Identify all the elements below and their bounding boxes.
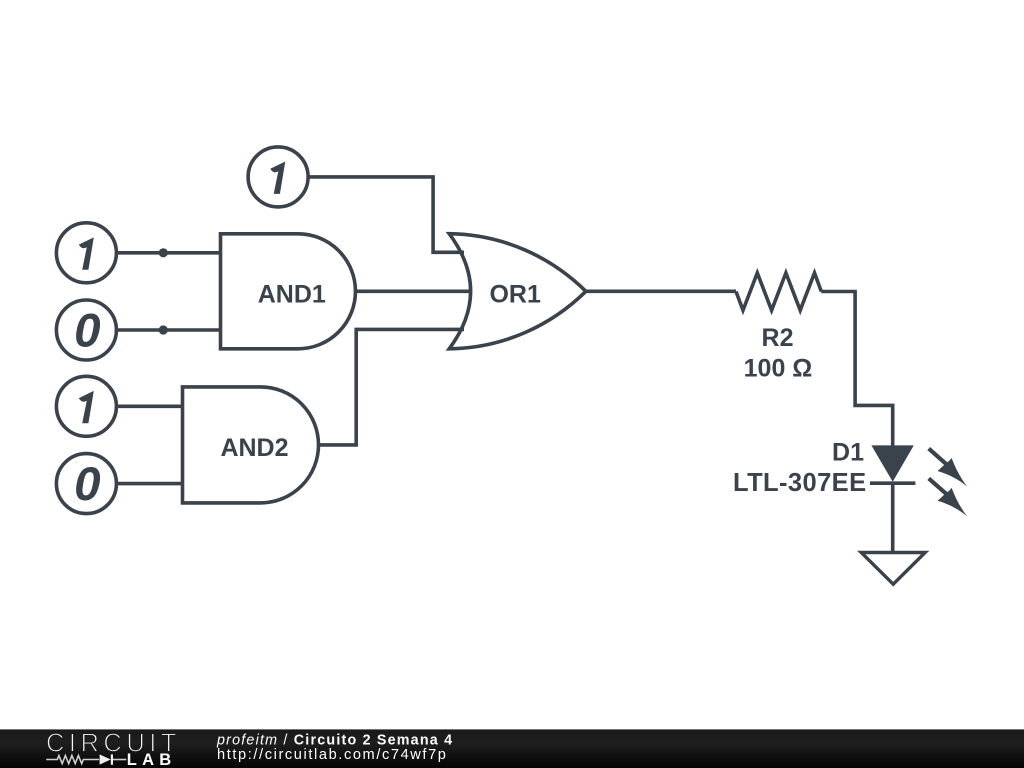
wire from IN_D to AND2 [116, 404, 183, 408]
junction dot on IN_C wire [159, 325, 168, 334]
node IN_C logic 0 (AND1 lower input) [56, 300, 116, 360]
svg-text:http://circuitlab.com/c74wf7p: http://circuitlab.com/c74wf7p [217, 747, 448, 763]
wire LED D1 to ground [891, 483, 895, 552]
svg-text:LTL-307EE: LTL-307EE [733, 469, 867, 497]
CircuitLab logo: diode symbol [100, 754, 127, 764]
footer bar [0, 729, 1024, 768]
and-gate AND2 [183, 387, 319, 503]
node IN_B logic 1 (AND1 upper input) [56, 223, 116, 283]
CircuitLab logo: resistor zigzag [46, 756, 99, 764]
wire from IN_B to AND1 [116, 251, 221, 255]
svg-text:LAB: LAB [127, 751, 177, 768]
node IN_E logic 0 (AND2 lower input) [56, 454, 116, 514]
svg-text:AND2: AND2 [220, 434, 288, 462]
ground symbol [861, 553, 925, 585]
led light arrow 1 [929, 449, 968, 487]
wire AND2 output up to OR1 input 3 [319, 329, 465, 445]
svg-text:D1: D1 [832, 439, 864, 467]
svg-text:R2: R2 [762, 324, 794, 352]
wire AND1 output to OR1 input 2 [356, 289, 473, 293]
junction dot on IN_B wire [159, 248, 168, 257]
and-gate AND1 [221, 234, 356, 349]
led D1 [733, 439, 915, 497]
wire OR1 output to R2 [586, 289, 736, 293]
wire R2 to LED D1 [821, 292, 892, 447]
svg-text:AND1: AND1 [258, 280, 326, 308]
svg-text:0: 0 [74, 458, 100, 511]
wire from IN_A to OR1 input 1 [308, 177, 465, 252]
svg-text:100 Ω: 100 Ω [744, 354, 813, 382]
wire from IN_C to AND1 [116, 328, 221, 332]
wire from IN_E to AND2 [116, 482, 183, 486]
svg-text:OR1: OR1 [489, 280, 541, 308]
or-gate OR1 [449, 234, 586, 349]
resistor R2 [736, 273, 821, 382]
node IN_A logic 1 (top) [248, 147, 308, 207]
svg-text:0: 0 [74, 304, 100, 357]
led light arrow 2 [929, 478, 968, 516]
node IN_D logic 1 (AND2 upper input) [56, 376, 116, 436]
